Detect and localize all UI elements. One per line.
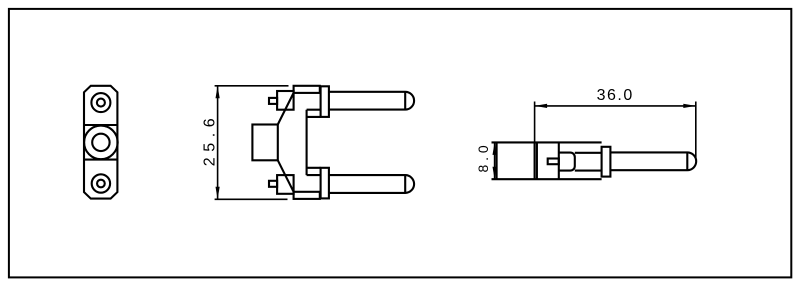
- front view: upper step lines: [307, 110, 321, 117]
- front view: lower collar washer: [321, 168, 329, 199]
- left view: lower screw hole: [92, 174, 110, 192]
- front view: lower bottom bar: [294, 192, 320, 199]
- left view: plate outline: [84, 86, 117, 199]
- side view: dimension line 8.0: [494, 142, 496, 179]
- front view: lower block: [277, 175, 294, 194]
- front view: upper collar washer: [321, 86, 329, 117]
- svg-text:25.6: 25.6: [202, 113, 219, 167]
- front view: dimension arrow down: [216, 187, 220, 200]
- side view: sleeve top line: [575, 152, 602, 154]
- side view: dimension 8.0 arrow up: [493, 142, 497, 155]
- front view: dimension arrow up: [216, 86, 220, 99]
- front view: upper nub: [269, 98, 277, 104]
- front view: lower chamfer line: [278, 160, 294, 192]
- side view: extension line right: [695, 102, 697, 160]
- svg-text:36.0: 36.0: [597, 87, 634, 104]
- front view: center square boss: [252, 125, 277, 161]
- side view: dimension 36.0 right arrow: [683, 104, 696, 108]
- front view: lower pin: [329, 175, 414, 193]
- front view: dimension line 25.6: [217, 86, 219, 200]
- left view: upper screw hole: [91, 93, 110, 112]
- left view: upper divider line: [84, 124, 117, 126]
- side view: body top edge: [492, 141, 602, 143]
- side view: dimension line 36.0: [535, 105, 696, 107]
- side view: dimension 36.0 left arrow: [535, 104, 548, 108]
- front view: upper block: [277, 91, 294, 110]
- front view: upper chamfer line: [278, 93, 294, 125]
- side view: contact stem: [548, 159, 559, 165]
- left view: lower divider line: [84, 159, 117, 161]
- side view: dimension 8.0 arrow down: [493, 167, 497, 180]
- side view: pin: [610, 152, 696, 170]
- side view: mid divider: [558, 142, 560, 179]
- side view: body bottom edge: [492, 178, 602, 180]
- side view: sleeve bottom line: [575, 170, 602, 172]
- side view: divider double line right: [536, 142, 538, 179]
- svg-text:8.0: 8.0: [475, 142, 491, 173]
- left view: center bushing circles: [84, 126, 118, 160]
- side view: contact dome: [559, 153, 575, 171]
- side view: body left edge: [496, 142, 498, 179]
- front view: center web edge: [306, 110, 308, 175]
- side view: divider double line left: [534, 142, 536, 179]
- front view: upper top bar: [294, 86, 320, 93]
- front view: extension line bottom: [215, 198, 288, 200]
- front view: extension line top: [215, 85, 289, 87]
- front view: lower step lines: [307, 168, 321, 175]
- front view: lower nub: [269, 181, 277, 187]
- side view: extension line left: [534, 102, 536, 143]
- front view: upper pin: [329, 92, 414, 110]
- side view: flange: [602, 147, 611, 177]
